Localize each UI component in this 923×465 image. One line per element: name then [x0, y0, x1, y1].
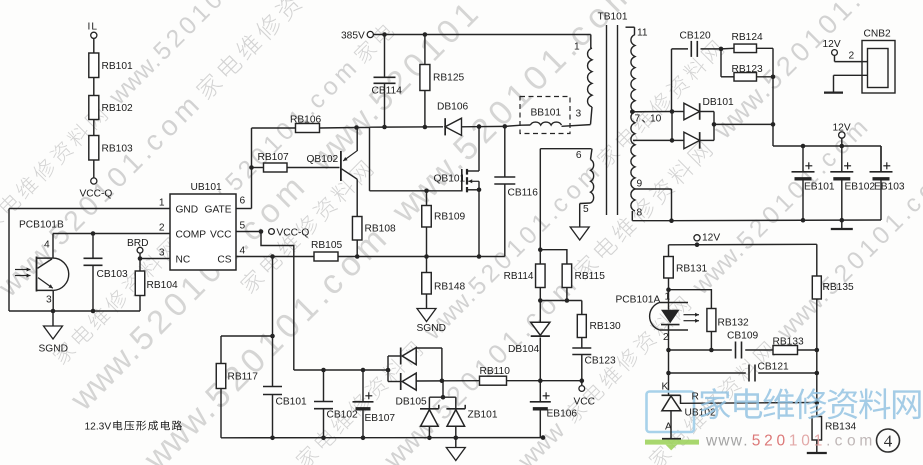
- svg-text:A: A: [665, 422, 672, 433]
- svg-text:7: 7: [635, 114, 641, 125]
- svg-text:0: 0: [777, 433, 786, 450]
- svg-text:6: 6: [240, 196, 246, 207]
- svg-text:1: 1: [574, 42, 580, 53]
- svg-text:UB101: UB101: [191, 182, 222, 193]
- svg-text:RB104: RB104: [147, 280, 178, 291]
- svg-text:QB101: QB101: [434, 174, 466, 185]
- svg-text:6: 6: [576, 150, 582, 161]
- svg-text:4: 4: [44, 240, 50, 251]
- svg-text:12.3V: 12.3V: [85, 422, 112, 433]
- svg-text:5: 5: [752, 433, 761, 450]
- svg-text:5: 5: [240, 221, 246, 232]
- svg-text:RB115: RB115: [575, 271, 606, 282]
- svg-text:1: 1: [814, 433, 823, 450]
- svg-text:TB101: TB101: [598, 12, 628, 23]
- svg-text:CB120: CB120: [680, 31, 711, 42]
- svg-text:RB110: RB110: [480, 366, 511, 377]
- svg-text:DB105: DB105: [396, 397, 427, 408]
- svg-text:RB105: RB105: [311, 240, 342, 251]
- svg-text:RB114: RB114: [504, 271, 534, 282]
- svg-text:8: 8: [637, 208, 643, 219]
- svg-text:4: 4: [884, 432, 893, 451]
- svg-text:CB102: CB102: [327, 410, 358, 421]
- svg-text:RB125: RB125: [433, 73, 464, 84]
- svg-text:RB108: RB108: [365, 224, 396, 235]
- svg-text:EB101: EB101: [804, 182, 835, 193]
- svg-text:COMP: COMP: [176, 230, 207, 241]
- svg-text:RB103: RB103: [102, 144, 133, 155]
- svg-text:RB135: RB135: [823, 282, 854, 293]
- svg-text:EB106: EB106: [547, 409, 578, 420]
- svg-text:EB107: EB107: [365, 413, 396, 424]
- svg-text:CNB2: CNB2: [864, 29, 892, 40]
- svg-text:PCB101B: PCB101B: [19, 220, 64, 231]
- svg-text:GATE: GATE: [205, 205, 232, 216]
- svg-text:CB109: CB109: [727, 331, 758, 342]
- svg-text:5: 5: [583, 204, 589, 215]
- svg-text:CB101: CB101: [276, 397, 307, 408]
- svg-text:CB114: CB114: [372, 86, 403, 97]
- svg-text:NC: NC: [176, 255, 191, 266]
- svg-text:DB104: DB104: [508, 344, 539, 355]
- svg-text:1: 1: [665, 292, 671, 303]
- svg-text:3: 3: [159, 248, 165, 259]
- svg-text:VCC: VCC: [574, 397, 596, 408]
- svg-text:RB106: RB106: [290, 115, 321, 126]
- svg-text:RB102: RB102: [102, 103, 133, 114]
- svg-text:SGND: SGND: [39, 344, 68, 355]
- svg-text:w: w: [717, 433, 730, 450]
- svg-text:QB102: QB102: [307, 154, 339, 165]
- svg-text:GND: GND: [176, 205, 199, 216]
- svg-text:c: c: [835, 433, 843, 450]
- svg-text:w: w: [730, 433, 743, 450]
- svg-text:RB124: RB124: [732, 32, 763, 43]
- svg-text:RB107: RB107: [258, 152, 289, 163]
- svg-text:1: 1: [159, 198, 165, 209]
- svg-text:3: 3: [46, 295, 52, 306]
- svg-text:2: 2: [159, 223, 165, 234]
- svg-text:CB103: CB103: [97, 269, 128, 280]
- svg-text:RB132: RB132: [718, 318, 749, 329]
- svg-text:385V: 385V: [341, 31, 365, 42]
- svg-text:BRD: BRD: [127, 238, 149, 249]
- svg-text:EB103: EB103: [874, 182, 905, 193]
- svg-text:RB109: RB109: [434, 212, 465, 223]
- svg-text:DB106: DB106: [437, 102, 468, 113]
- svg-text:3: 3: [576, 109, 582, 120]
- svg-text:CB121: CB121: [758, 362, 789, 373]
- svg-text:RB131: RB131: [676, 264, 707, 275]
- svg-text:.: .: [826, 433, 830, 450]
- svg-text:RB117: RB117: [228, 372, 259, 383]
- svg-text:.: .: [743, 433, 747, 450]
- svg-text:VCC-Q: VCC-Q: [277, 228, 310, 239]
- svg-text:2: 2: [849, 51, 855, 62]
- svg-text:m: m: [859, 433, 872, 450]
- svg-text:o: o: [847, 433, 856, 450]
- svg-text:BB101: BB101: [531, 108, 562, 119]
- svg-text:EB102: EB102: [845, 182, 876, 193]
- svg-text:DB101: DB101: [703, 97, 734, 108]
- svg-text:12V: 12V: [833, 123, 851, 134]
- svg-text:RB134: RB134: [825, 422, 856, 433]
- svg-text:RB123: RB123: [732, 64, 763, 75]
- svg-text:CS: CS: [217, 255, 231, 266]
- svg-text:10: 10: [650, 114, 662, 125]
- svg-text:CB123: CB123: [585, 356, 616, 367]
- svg-text:VCC: VCC: [210, 230, 232, 241]
- svg-text:12V: 12V: [823, 39, 841, 50]
- svg-text:2: 2: [663, 332, 669, 343]
- svg-text:K: K: [662, 382, 669, 393]
- svg-text:1: 1: [789, 433, 798, 450]
- svg-text:RB148: RB148: [434, 282, 465, 293]
- svg-text:4: 4: [240, 246, 246, 257]
- svg-text:11: 11: [637, 28, 648, 39]
- svg-text:CB116: CB116: [508, 188, 539, 199]
- svg-text:RB133: RB133: [773, 337, 804, 348]
- svg-text:PCB101A: PCB101A: [616, 295, 661, 306]
- svg-text:SGND: SGND: [417, 323, 446, 334]
- svg-text:12V: 12V: [702, 233, 720, 244]
- svg-text:RB101: RB101: [102, 61, 133, 72]
- svg-text:w: w: [705, 433, 718, 450]
- svg-text:RB130: RB130: [590, 321, 621, 332]
- svg-text:0: 0: [801, 433, 810, 450]
- svg-text:R: R: [692, 392, 699, 403]
- svg-text:VCC-Q: VCC-Q: [80, 189, 113, 200]
- svg-text:IL: IL: [88, 22, 99, 33]
- svg-text:9: 9: [637, 179, 643, 190]
- svg-text:2: 2: [764, 433, 773, 450]
- svg-text:ZB101: ZB101: [468, 410, 498, 421]
